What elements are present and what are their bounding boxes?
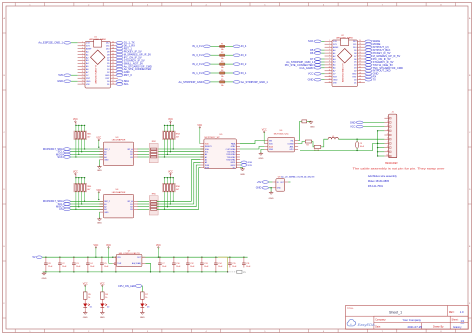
svg-text:INT_A: INT_A <box>127 200 133 203</box>
wire (row A bus) <box>70 156 103 158</box>
svg-text:1k: 1k <box>88 297 90 299</box>
wire cap rail bottom <box>43 271 228 273</box>
svg-text:B1: B1 <box>130 204 132 206</box>
svg-text:RXD/GPA3: RXD/GPA3 <box>226 153 235 156</box>
svg-text:C5: C5 <box>104 263 106 265</box>
capacitor C6 <box>115 257 116 258</box>
svg-text:1k: 1k <box>145 297 147 299</box>
svg-text:Drawn By:: Drawn By: <box>433 326 444 329</box>
svg-text:IN_3_FU: IN_3_FU <box>192 53 203 57</box>
svg-text:+5V: +5V <box>257 181 262 184</box>
svg-text:RS 141-7501: RS 141-7501 <box>368 184 384 188</box>
ground (cap rail) <box>43 272 45 273</box>
wire (row B bus) <box>70 203 103 205</box>
svg-text:20: 20 <box>359 70 361 72</box>
svg-text:8: 8 <box>387 146 388 148</box>
net flag MODE (U2 right) <box>365 43 372 46</box>
net flag C1A_GARD (U2 left) <box>321 67 324 69</box>
svg-text:SCK: SCK <box>308 39 314 43</box>
svg-text:GND: GND <box>97 170 102 172</box>
wire U7 AGND to rail2 <box>145 263 150 272</box>
svg-text:F2: F2 <box>221 52 223 54</box>
svg-text:VCC: VCC <box>308 72 314 76</box>
net flag GND (U1) <box>71 80 78 82</box>
ground (D1) <box>84 311 86 312</box>
svg-text:GND: GND <box>333 79 338 81</box>
svg-text:19: 19 <box>112 74 114 76</box>
net flag SCL (row B) <box>63 203 70 206</box>
net flag INTPOUT_BLK (U2 right) <box>365 49 372 52</box>
net flag INTPOUT_2KD (U2 right) <box>365 70 372 73</box>
inductor L1 <box>321 139 328 147</box>
svg-text:14: 14 <box>329 78 331 80</box>
resistor R2 <box>298 121 302 140</box>
net flag MCP23017_SDA (row B) <box>63 200 70 203</box>
fuse F1 <box>203 45 210 48</box>
resistor network RN1 pull-ups <box>75 122 77 125</box>
net flag SCK (U2 left) <box>321 40 324 42</box>
svg-text:VIN: VIN <box>86 84 90 86</box>
svg-text:Sheet_1: Sheet_1 <box>389 310 402 314</box>
svg-text:Date:: Date: <box>375 326 381 329</box>
net flag WAKE (U2 right) <box>365 40 372 43</box>
svg-text:Ao_STRIP33P_GND: Ao_STRIP33P_GND <box>179 80 203 84</box>
net flag VCC (U2 left) <box>321 73 324 75</box>
svg-text:13: 13 <box>329 75 331 77</box>
wire L1 to J1 <box>338 138 384 140</box>
capacitor C13 <box>201 257 202 258</box>
net flag CS (row B) <box>63 208 70 211</box>
net flag PICKEY_IF_5V (U2 right) <box>365 52 372 55</box>
svg-text:AREF: AREF <box>86 47 92 50</box>
capacitor C11 <box>243 257 244 258</box>
svg-text:GND: GND <box>100 317 105 319</box>
svg-text:5V: 5V <box>32 256 35 259</box>
svg-text:VCC: VCC <box>350 126 355 129</box>
svg-text:GND: GND <box>269 198 274 200</box>
svg-text:A3: A3 <box>104 208 106 211</box>
svg-text:Company:: Company: <box>375 319 386 322</box>
svg-text:12: 12 <box>329 73 331 75</box>
wire U5 to U6 (pin3) <box>240 147 265 150</box>
fuse F3 <box>203 63 210 66</box>
svg-text:GND: GND <box>258 158 263 160</box>
fuse F5 <box>203 81 210 84</box>
svg-text:28: 28 <box>359 46 361 48</box>
svg-text:F4: F4 <box>221 70 223 72</box>
svg-text:TX: TX <box>373 78 377 82</box>
svg-text:29: 29 <box>112 45 114 47</box>
svg-text:GND: GND <box>97 223 102 225</box>
svg-text:C9: C9 <box>360 143 362 145</box>
svg-text:C4: C4 <box>90 263 92 265</box>
svg-text:16: 16 <box>359 81 361 83</box>
svg-text:22: 22 <box>359 64 361 66</box>
svg-text:D1: D1 <box>90 306 92 308</box>
svg-text:6: 6 <box>387 138 388 140</box>
net flag Ao_STRIP33P_CMD_1 (U2 left) <box>321 61 324 63</box>
net flag Ao_ESP32E_CMD_1 <box>71 42 78 44</box>
svg-text:GND: GND <box>140 317 145 319</box>
svg-text:COMW: COMW <box>287 143 293 145</box>
capacitor C4 <box>87 257 88 258</box>
svg-text:9: 9 <box>387 150 388 152</box>
svg-text:2021-07-25: 2021-07-25 <box>408 325 423 329</box>
svg-text:GND: GND <box>105 75 110 77</box>
svg-text:14: 14 <box>82 80 84 82</box>
wire U6 pin3 net to J1 lower <box>300 143 378 150</box>
resistor network RN4 pull-ups <box>75 174 77 177</box>
svg-text:27: 27 <box>359 49 361 51</box>
svg-text:A0: A0 <box>205 153 207 156</box>
svg-text:3: 3 <box>387 125 388 127</box>
svg-text:20: 20 <box>112 71 114 73</box>
svg-text:F3: F3 <box>221 61 223 63</box>
capacitor C2 <box>59 257 60 258</box>
svg-text:F5: F5 <box>221 79 223 81</box>
svg-text:REV:: REV: <box>449 311 455 314</box>
svg-text:11: 11 <box>329 70 331 72</box>
net flag PIC_STE_CONNECTED (U2 left) <box>321 64 324 66</box>
net flag GND (U2 left) <box>321 79 324 81</box>
svg-text:C1A_GARD: C1A_GARD <box>299 66 313 70</box>
net flag SCL (row A) <box>63 150 70 153</box>
resistor network RN6 pull-ups <box>170 174 172 177</box>
wire (row A bus) <box>70 153 103 155</box>
svg-text:5: 5 <box>387 134 388 136</box>
net flag TX (U2) <box>365 78 372 81</box>
svg-text:GPO: GPO <box>289 149 294 151</box>
svg-text:C12: C12 <box>190 263 193 265</box>
svg-text:RST_0: RST_0 <box>124 73 133 77</box>
capacitor C9 <box>356 139 358 141</box>
svg-text:GND: GND <box>269 149 274 151</box>
svg-text:7: 7 <box>387 142 388 144</box>
svg-text:18: 18 <box>112 77 114 79</box>
svg-text:16: 16 <box>112 83 114 85</box>
svg-text:A1: A1 <box>104 203 106 206</box>
svg-text:AREF: AREF <box>333 46 339 49</box>
net flag Ao_STE_CONNECTED <box>116 68 123 71</box>
svg-text:RESET#: RESET# <box>205 146 212 148</box>
svg-text:15: 15 <box>329 81 331 83</box>
svg-text:C15: C15 <box>232 263 235 265</box>
svg-text:PAT_2: PAT_2 <box>104 200 110 203</box>
svg-text:GND: GND <box>42 278 47 280</box>
svg-text:LED2HAPWR: LED2HAPWR <box>112 139 126 142</box>
svg-text:CLKT/GPA6: CLKT/GPA6 <box>226 148 236 151</box>
net flag MOSI (row A) <box>63 153 70 156</box>
svg-text:ARDUINO NANO V3: ARDUINO NANO V3 <box>95 64 98 83</box>
wire cap rail top <box>42 256 116 258</box>
net flag INTB (U5 right) <box>240 164 241 166</box>
net flag MCP23017_SDA (row A) <box>63 148 70 151</box>
wire (row A bus) <box>70 151 103 153</box>
net flag TINY11_NGE_5V (U2 right) <box>365 64 372 67</box>
svg-text:13: 13 <box>82 77 84 79</box>
svg-text:Add Molex wire assembly: Add Molex wire assembly <box>368 174 398 178</box>
svg-text:1.0: 1.0 <box>460 310 464 314</box>
svg-text:D6: D6 <box>310 51 314 55</box>
resistor network RN5 series <box>149 196 158 215</box>
svg-text:24: 24 <box>359 58 361 60</box>
svg-text:A2: A2 <box>104 153 106 156</box>
svg-text:A3: A3 <box>104 156 106 159</box>
net flag INTA (U5 right) <box>240 161 241 163</box>
net flag GND (U8) <box>262 187 269 190</box>
LED D3 <box>140 304 144 308</box>
ground (D2) <box>101 311 103 312</box>
resistor network RN3 pull-ups <box>170 122 172 125</box>
svg-text:INT_A: INT_A <box>127 148 133 151</box>
net flag RST_0 <box>116 74 123 77</box>
svg-text:C8: C8 <box>48 263 50 265</box>
svg-text:Gianny: Gianny <box>453 325 462 329</box>
net flag MISO (row B) <box>63 205 70 208</box>
svg-text:21: 21 <box>112 68 114 70</box>
ground (R2) <box>307 120 311 122</box>
svg-text:28: 28 <box>112 47 114 49</box>
net flag TNC_STGARDYOF_CMD (U2 right) <box>365 67 372 70</box>
svg-text:30: 30 <box>359 40 361 42</box>
svg-text:29: 29 <box>359 43 361 45</box>
fuse F4 <box>203 72 210 75</box>
net flag RX (U2) <box>365 75 372 78</box>
net flag D5 (U2 left) <box>321 49 324 51</box>
svg-text:17: 17 <box>359 78 361 80</box>
svg-text:B3: B3 <box>130 209 132 211</box>
svg-text:C7: C7 <box>162 263 164 265</box>
svg-text:IN_1: IN_1 <box>241 71 247 75</box>
wire U8 out <box>288 181 290 183</box>
svg-text:GND: GND <box>83 317 88 319</box>
svg-text:19: 19 <box>359 73 361 75</box>
svg-text:C11: C11 <box>246 263 249 265</box>
svg-text:IN_2_FU: IN_2_FU <box>192 62 203 66</box>
ground (below U4) <box>98 212 100 219</box>
net flag STGARDY_IF_5V (U2 right) <box>365 61 372 64</box>
capacitor C15 <box>229 257 230 258</box>
ground (below U3) <box>98 160 100 167</box>
net flag M_SPARES_UP_IF_5V <box>116 53 123 56</box>
resistor network RN2 series <box>149 143 158 162</box>
net flag VCC (J1) <box>356 125 363 128</box>
svg-text:30: 30 <box>112 42 114 44</box>
wire (row B bus) <box>70 200 103 202</box>
svg-text:TXD/GPA4: TXD/GPA4 <box>227 151 236 154</box>
wire (row A bus) <box>70 148 103 150</box>
svg-text:IN_1_FU: IN_1_FU <box>192 71 203 75</box>
svg-text:Ao_STRIP33P_GND_1: Ao_STRIP33P_GND_1 <box>241 80 269 84</box>
svg-text:1: 1 <box>387 117 388 119</box>
net flag M_GPARES_UP_IF_5V (U2 right) <box>365 55 372 58</box>
svg-text:10: 10 <box>386 155 388 157</box>
svg-text:GND: GND <box>256 187 262 190</box>
resistor R7 <box>141 292 145 299</box>
net flag Ao_STGARDYOF_CMD <box>116 65 123 68</box>
capacitor C5 <box>101 257 102 258</box>
net flag 5V (cap rail) <box>36 256 42 259</box>
ground (D3) <box>141 311 143 312</box>
svg-text:AWL: AWL <box>290 145 294 148</box>
net flag INTPOUT_(2) (U2 right) <box>365 46 372 49</box>
svg-text:R3: R3 <box>306 144 308 146</box>
svg-text:P1: P1 <box>243 272 245 274</box>
svg-text:4: 4 <box>387 129 388 131</box>
net flag D6 (U2 left) <box>321 52 324 54</box>
fuse F2 <box>203 54 210 57</box>
svg-text:Ao_QX_MAHALLOQOM_ALLMQOM: Ao_QX_MAHALLOQOM_ALLMQOM <box>281 175 314 178</box>
LED D1 <box>83 304 87 308</box>
svg-text:23: 23 <box>359 61 361 63</box>
net flag STGARDY_IF_5V <box>116 59 123 62</box>
svg-text:C2: C2 <box>62 263 64 265</box>
svg-text:IN_4_FU: IN_4_FU <box>192 44 203 48</box>
net flag RST_1 <box>116 47 123 50</box>
svg-text:IN_2: IN_2 <box>241 62 247 66</box>
svg-text:22: 22 <box>112 65 114 67</box>
ground (U8) <box>270 187 271 188</box>
svg-text:A1: A1 <box>205 156 207 159</box>
ground (U6) <box>261 149 265 153</box>
svg-text:GND: GND <box>104 212 109 214</box>
net flag SCL (U1) <box>116 83 123 86</box>
svg-text:18: 18 <box>359 75 361 77</box>
wire row B risers to U5 <box>157 160 201 202</box>
svg-text:Molex 15134-0805: Molex 15134-0805 <box>368 179 390 183</box>
svg-text:A3: A3 <box>205 161 207 164</box>
svg-text:1/1: 1/1 <box>461 319 465 323</box>
wire (row B bus) <box>70 208 103 210</box>
svg-text:Your Company: Your Company <box>403 318 422 322</box>
net flag D0_1_RX <box>116 45 123 48</box>
svg-text:AG(JOAE): AG(JOAE) <box>132 262 141 265</box>
svg-text:SCL: SCL <box>124 82 130 86</box>
net flag IFC_ON_IF_5V <box>116 56 123 59</box>
svg-text:GND: GND <box>350 121 356 124</box>
svg-text:25: 25 <box>112 56 114 58</box>
wire J1 common tie <box>377 131 379 156</box>
svg-text:5V0: 5V0 <box>58 73 63 77</box>
svg-text:PAT_2: PAT_2 <box>104 148 110 151</box>
svg-text:17: 17 <box>112 80 114 82</box>
svg-text:D2: D2 <box>107 306 109 308</box>
svg-text:THR: THR <box>117 263 122 265</box>
svg-text:SCK: SCK <box>57 155 63 159</box>
svg-text:Sheet:: Sheet: <box>452 319 459 322</box>
svg-text:IN_3: IN_3 <box>241 53 247 57</box>
svg-text:GND: GND <box>57 79 63 83</box>
svg-text:C10: C10 <box>176 263 179 265</box>
svg-text:F1: F1 <box>221 43 223 45</box>
net flag +5V (U8) <box>262 181 269 184</box>
net flag 5V0 <box>71 74 78 76</box>
svg-text:TITLE:: TITLE: <box>347 308 354 310</box>
svg-text:10: 10 <box>329 67 331 69</box>
svg-text:26: 26 <box>112 53 114 55</box>
svg-text:27: 27 <box>112 50 114 52</box>
net flag SWILL_NOT_5V <box>116 62 123 65</box>
svg-text:26: 26 <box>359 52 361 54</box>
capacitor C10 <box>173 257 174 258</box>
svg-text:12: 12 <box>82 74 84 76</box>
svg-text:GND: GND <box>104 160 109 162</box>
LED D2 <box>100 304 104 308</box>
svg-text:B1: B1 <box>130 152 132 154</box>
svg-text:25: 25 <box>359 55 361 57</box>
svg-text:RXD/GPA1: RXD/GPA1 <box>226 159 235 162</box>
svg-text:GND: GND <box>240 174 245 176</box>
net flag PICKEY_IF_5V <box>116 50 123 53</box>
resistor R3 <box>298 142 305 144</box>
svg-text:Ao_ESP32E_CMD_1: Ao_ESP32E_CMD_1 <box>38 41 63 45</box>
svg-text:A2: A2 <box>205 159 207 162</box>
resistor R4 <box>312 142 315 147</box>
EasyEDA logo <box>347 319 356 325</box>
svg-text:GND: GND <box>310 127 315 129</box>
svg-text:PA0A: PA0A <box>231 143 236 146</box>
svg-text:GND: GND <box>277 188 282 190</box>
svg-text:IN_4: IN_4 <box>241 44 247 48</box>
svg-text:C14: C14 <box>218 263 221 265</box>
svg-text:11: 11 <box>82 71 84 73</box>
net flag SDA (U1) <box>116 80 123 83</box>
ground (U5 right) <box>240 168 243 169</box>
svg-text:IRL: IRL <box>291 140 294 142</box>
svg-text:C13: C13 <box>204 263 207 265</box>
wire bus drop (olive) <box>218 257 228 272</box>
svg-text:10: 10 <box>82 68 84 70</box>
svg-text:LED2HAPWR: LED2HAPWR <box>112 191 126 194</box>
svg-text:CPU_ON_LED: CPU_ON_LED <box>118 284 135 288</box>
svg-text:23: 23 <box>112 62 114 64</box>
svg-text:MCP23017-(S): MCP23017-(S) <box>274 133 289 135</box>
svg-text:CS: CS <box>59 207 63 211</box>
svg-text:BEWARE!!: BEWARE!! <box>385 161 398 165</box>
svg-text:1k: 1k <box>105 297 107 299</box>
net flag SCK (row A) <box>63 156 70 159</box>
svg-text:GND: GND <box>352 74 357 76</box>
net flag IPC_ON_IF_5V (U2 right) <box>365 58 372 61</box>
svg-text:GND2: GND2 <box>230 165 235 167</box>
svg-text:21: 21 <box>359 67 361 69</box>
svg-text:24: 24 <box>112 59 114 61</box>
svg-text:GND: GND <box>86 81 91 83</box>
resistor R6 <box>101 292 105 299</box>
svg-text:15: 15 <box>82 83 84 85</box>
svg-text:A1: A1 <box>104 151 106 154</box>
svg-text:ARDUINO NANO V3: ARDUINO NANO V3 <box>342 63 345 82</box>
svg-text:C3: C3 <box>76 263 78 265</box>
wire (row B bus) <box>70 206 103 208</box>
capacitor C7 <box>159 257 160 258</box>
net flag D7 (U2 left) <box>321 58 324 60</box>
svg-text:VDD: VDD <box>269 143 274 145</box>
svg-text:GND: GND <box>308 78 314 82</box>
wire U5 to U6 (pin1) <box>240 141 265 144</box>
net flag GND (J1) <box>356 121 363 124</box>
svg-text:B3: B3 <box>130 157 132 159</box>
svg-text:2: 2 <box>387 121 388 123</box>
capacitor C3 <box>73 257 74 258</box>
net flag D1_1_TX <box>116 42 123 45</box>
svg-text:D3: D3 <box>147 306 149 308</box>
capacitor C12 <box>187 257 188 258</box>
svg-text:The cable assembly is not pin: The cable assembly is not pin for pin. T… <box>353 167 445 171</box>
net flag GND (U2 right) <box>365 73 372 76</box>
svg-text:GPA7: GPA7 <box>231 145 236 148</box>
title block <box>346 306 469 330</box>
